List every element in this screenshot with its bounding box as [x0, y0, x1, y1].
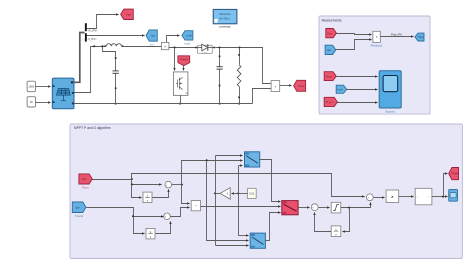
- wire main to mosfet drain: [174, 48, 176, 71]
- wire +delta to switch2 in1: [239, 235, 249, 237]
- svg-text:<V_PV>: <V_PV>: [88, 29, 98, 33]
- constant Temperature 25: [27, 97, 35, 107]
- svg-text:Ipv: Ipv: [76, 205, 81, 209]
- wire Pow_PV: [381, 36, 414, 38]
- svg-text:Iout: Iout: [186, 34, 191, 38]
- wire to goto Vout: [280, 85, 292, 87]
- PWM generator block: [415, 188, 432, 205]
- wire Vmeas minus: [253, 89, 272, 104]
- svg-text:Vpv: Vpv: [126, 12, 132, 16]
- node R top: [239, 47, 241, 49]
- sum3: [366, 194, 373, 201]
- wire up to goto PWM: [444, 174, 448, 197]
- area MPPT P and O algorithm panel: [70, 124, 462, 259]
- svg-text:P_pv: P_pv: [326, 100, 334, 104]
- svg-text:Ipv: Ipv: [327, 48, 332, 52]
- current measurement block: [161, 42, 169, 49]
- wire Vpv to delay1: [132, 185, 142, 198]
- node LB branch: [206, 159, 208, 161]
- wire delay2 to sum2: [156, 222, 171, 234]
- from Ipv: [325, 45, 336, 54]
- powergui block: [213, 9, 237, 23]
- wire Vpv to product: [337, 34, 372, 35]
- capacitor C1: [113, 70, 119, 72]
- red switch: [282, 201, 298, 215]
- wire saturation out / feedback: [341, 203, 371, 208]
- mosfet block: [173, 72, 188, 96]
- area Measurements panel: [319, 16, 430, 114]
- vertical -delta x215: [215, 156, 217, 246]
- node Vpv branch2: [131, 183, 133, 185]
- wire sum1b to saturation: [319, 207, 330, 209]
- resistor load branch: [239, 48, 241, 65]
- wire L to Imeas: [124, 46, 162, 48]
- goto Ipv: [146, 30, 157, 41]
- switch2 (blue): [250, 233, 265, 248]
- wire red switch to sum1b: [299, 207, 310, 209]
- node mosfet source rail: [179, 103, 181, 105]
- svg-text:Scope1: Scope1: [385, 110, 395, 114]
- svg-text:5e-05 s.: 5e-05 s.: [220, 16, 231, 20]
- svg-text:0.01: 0.01: [249, 192, 255, 196]
- svg-text:›: ›: [428, 195, 429, 199]
- svg-text:÷: ÷: [195, 204, 197, 208]
- svg-text:Iout: Iout: [337, 87, 342, 91]
- node +delta: [237, 192, 239, 194]
- constant C.P: [247, 188, 256, 198]
- node Vpv branch: [131, 178, 133, 180]
- svg-text:Discrete: Discrete: [219, 12, 231, 16]
- capacitor C2 branch: [219, 48, 221, 67]
- PV array block: [52, 78, 74, 109]
- wire PV+ up to top rail: [74, 47, 105, 93]
- wire mosfet source to rail: [180, 96, 182, 104]
- svg-text:Vpv: Vpv: [327, 31, 333, 35]
- node mosfet drain: [174, 47, 176, 49]
- PV ports: [53, 85, 55, 87]
- node Ipv branch: [132, 215, 134, 217]
- node C1 top: [101, 45, 103, 47]
- inductor L: [104, 45, 106, 47]
- wire Vpv to sum1: [132, 180, 162, 185]
- wire Iout to scope: [347, 89, 378, 91]
- wire switch1 out to red switch in1: [260, 160, 281, 202]
- from tag PWM: [178, 56, 190, 66]
- voltage measurement block: [271, 81, 280, 92]
- wire delay1 to sum1: [153, 190, 169, 198]
- svg-text:›: ›: [417, 195, 418, 199]
- node C1 bottom rail: [115, 103, 117, 105]
- node duty feedback: [348, 207, 350, 209]
- from Vout: [324, 72, 336, 81]
- PV icon: [57, 89, 71, 101]
- capacitor C1 branch: [103, 47, 116, 71]
- svg-text:PWM: PWM: [451, 172, 459, 176]
- sum1b: [311, 204, 318, 211]
- wire gain out to vert x215: [216, 193, 221, 195]
- wire relop to pwm block: [399, 196, 414, 198]
- node dV branch: [181, 184, 183, 186]
- switch1 (blue): [245, 152, 260, 167]
- capacitor C2: [217, 66, 223, 68]
- resistor R zigzag: [237, 65, 241, 87]
- unit delay2: [146, 228, 155, 239]
- sum2: [164, 213, 171, 220]
- from Vpv: [326, 29, 337, 38]
- wire Vout to scope: [337, 76, 378, 78]
- goto D (blue): [449, 189, 458, 201]
- node top-left: [93, 45, 95, 47]
- from Vpv (mppt): [79, 174, 92, 184]
- diode D: [197, 45, 212, 53]
- bottom rail: [74, 103, 253, 105]
- wire -delta to switch1 in1: [216, 155, 243, 157]
- wire Ppv to scope: [338, 102, 378, 104]
- wire LA Vpv to sum3: [132, 174, 365, 197]
- svg-text:Product1: Product1: [371, 44, 383, 48]
- svg-text:≥: ≥: [391, 195, 393, 199]
- bus wire m to Bus Selector: [73, 33, 84, 83]
- svg-text:From2: From2: [75, 214, 84, 218]
- wire product to red switch: [201, 206, 281, 208]
- wire pwm out: [432, 196, 448, 198]
- svg-text:Iout1: Iout1: [185, 42, 191, 46]
- sum1: [165, 181, 172, 188]
- gain -1 (left pointing): [220, 188, 230, 200]
- wire +delta to switch1 in3: [239, 165, 243, 167]
- svg-text:Ipv: Ipv: [151, 34, 156, 38]
- relational operator block: [386, 190, 399, 203]
- goto Vout: [294, 80, 306, 91]
- wire -delta to switch2 in3: [216, 245, 249, 247]
- wire Ipv to delay2: [134, 217, 145, 234]
- goto Iout: [182, 31, 193, 40]
- node -delta: [214, 192, 216, 194]
- scope Scope1: [379, 71, 401, 108]
- svg-text:Diode: Diode: [203, 52, 208, 54]
- from Ppv2: [324, 97, 337, 106]
- goto Vpv: [121, 9, 134, 19]
- svg-text:Vout: Vout: [298, 84, 304, 88]
- wire sum2 to product: [171, 208, 190, 217]
- wire switch2 out to red switch in3: [266, 213, 281, 241]
- wire sum1 to product: [182, 185, 190, 204]
- unit delay1: [143, 192, 152, 203]
- svg-text:m: m: [186, 92, 188, 95]
- from Iout: [336, 85, 347, 93]
- wire sat junction down to delay3: [343, 208, 350, 232]
- svg-text:PWM: PWM: [180, 57, 188, 61]
- product (divide): [191, 201, 200, 211]
- from Ipv (mppt): [72, 202, 86, 213]
- node C2 top: [219, 47, 221, 49]
- goto PWM (red): [449, 168, 459, 180]
- node R bottom rail: [238, 103, 240, 105]
- saturation block: [331, 202, 341, 213]
- wire C.P to gain: [232, 193, 248, 195]
- wire i to goto Iout: [167, 36, 180, 43]
- svg-text:From: From: [82, 186, 89, 190]
- wire LB down to switch2: [207, 161, 249, 241]
- svg-text:1000: 1000: [28, 85, 34, 89]
- node C2 bottom rail: [219, 103, 221, 105]
- svg-text:MPPT P and O algorithm: MPPT P and O algorithm: [74, 126, 111, 130]
- vertical +delta x238.3: [238, 166, 240, 236]
- Bus Selector: [85, 23, 87, 31]
- svg-text:Vpv: Vpv: [81, 177, 87, 181]
- wire Vpv main: [93, 179, 132, 181]
- wire sum3 to relop: [374, 197, 385, 199]
- wire T to PV: [36, 102, 51, 104]
- svg-text:Vout: Vout: [326, 74, 332, 78]
- wire Ir to PV: [36, 86, 51, 88]
- constant Irradiance 1000: [27, 81, 35, 92]
- unit delay3 (mirrored): [331, 226, 341, 237]
- wire Ipv to product: [336, 40, 372, 50]
- wire delay3 to sum1b: [315, 213, 332, 232]
- node output branch: [442, 196, 444, 198]
- wire diode to out: [216, 48, 272, 84]
- product block Product1: [373, 31, 380, 42]
- goto Ppv: [415, 33, 424, 41]
- svg-text:powergui: powergui: [219, 25, 231, 29]
- svg-text:-1: -1: [226, 192, 229, 196]
- wire sum1 to switch1 (LB): [182, 161, 243, 185]
- svg-text:×: ×: [376, 35, 378, 39]
- svg-text:Pow_PV: Pow_PV: [391, 33, 402, 37]
- svg-text:Ppv: Ppv: [418, 35, 424, 39]
- wire I_PV: [87, 35, 145, 37]
- svg-text:Ipv1: Ipv1: [150, 43, 155, 47]
- wire V_PV: [87, 15, 119, 29]
- svg-text:<I_PV>: <I_PV>: [88, 37, 97, 41]
- wire sum1 out: [172, 184, 182, 186]
- wire Imeas to diode: [169, 47, 197, 49]
- wire Ipv main: [87, 208, 164, 217]
- svg-text:Measurments: Measurments: [322, 18, 342, 22]
